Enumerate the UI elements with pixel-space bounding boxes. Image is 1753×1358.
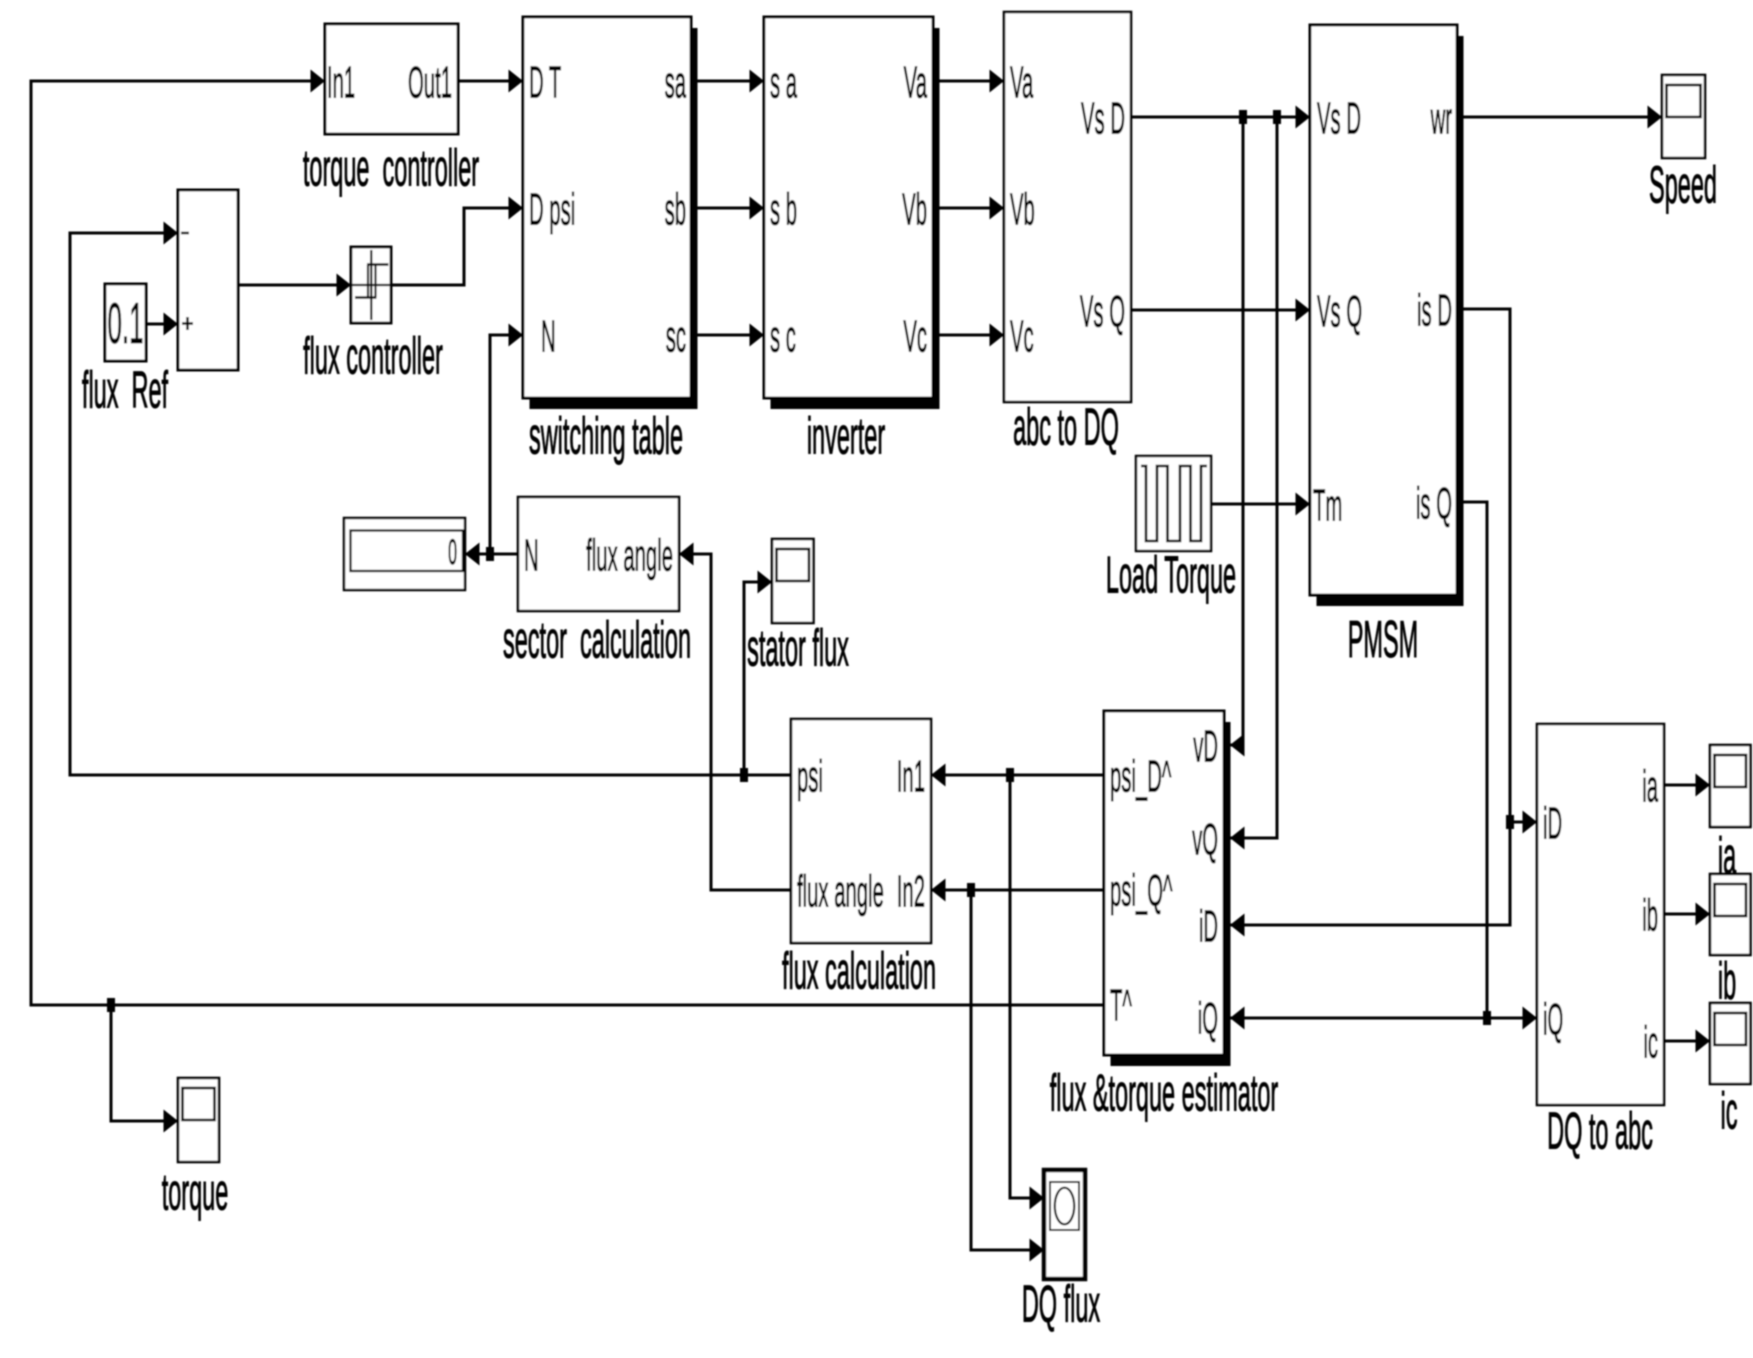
wire: inverter Vb to abc-to-DQ Vb — [934, 207, 1004, 210]
svg-text:flux calculation: flux calculation — [782, 942, 936, 1000]
svg-text:T^: T^ — [1110, 982, 1132, 1031]
svg-text:Va: Va — [1010, 59, 1034, 108]
wire: PMSM wr to Speed scope — [1463, 116, 1662, 119]
svg-text:psi: psi — [797, 753, 823, 802]
XY graph DQ flux — [1044, 1170, 1085, 1279]
constant 0.1 flux Ref — [105, 284, 146, 361]
svg-text:Vs D: Vs D — [1317, 95, 1361, 144]
relay flux controller — [351, 247, 391, 323]
wire: flux Ref 0.1 to sum plus input — [146, 323, 178, 326]
subsystem: switching table (with shadow) — [530, 28, 698, 409]
svg-text:wr: wr — [1430, 95, 1452, 144]
wire: Vs D tap down to estimator vQ — [1230, 117, 1277, 838]
svg-text:vQ: vQ — [1192, 816, 1218, 865]
wire: switching table sa to inverter s a — [692, 80, 764, 83]
wire: sector calculation N output to display — [465, 553, 518, 556]
svg-text:sa: sa — [665, 59, 687, 108]
svg-text:abc to DQ: abc to DQ — [1013, 398, 1119, 456]
svg-text:flux Ref: flux Ref — [82, 361, 169, 419]
wire: flux controller to switching table D psi — [391, 208, 523, 285]
wire: DQ-to-abc ia to ia scope — [1664, 784, 1710, 787]
subsystem: flux &torque estimator (with shadow) — [1111, 722, 1231, 1066]
wire: N tap up to switching table N input — [490, 335, 523, 554]
svg-text:psi_D^: psi_D^ — [1110, 753, 1172, 802]
ellipse in DQ flux icon — [1055, 1188, 1074, 1225]
svg-text:sector calculation: sector calculation — [503, 611, 691, 669]
wire: inverter Va to abc-to-DQ Va — [934, 80, 1004, 83]
svg-text:DQ to abc: DQ to abc — [1547, 1102, 1653, 1160]
svg-text:ib: ib — [1642, 892, 1658, 941]
svg-text:D psi: D psi — [529, 186, 575, 235]
svg-text:ic: ic — [1643, 1019, 1658, 1068]
svg-text:iQ: iQ — [1543, 996, 1563, 1045]
svg-text:Vb: Vb — [1010, 186, 1035, 235]
svg-text:N: N — [541, 313, 556, 362]
scope torque — [178, 1078, 219, 1162]
wire: estimator psi_Q^ to flux calculation In2 — [931, 889, 1104, 892]
junction dot psi_Q^ / DQ flux tap — [967, 883, 975, 897]
wire: DQ-to-abc ib to ib scope — [1664, 913, 1710, 916]
svg-text:iQ: iQ — [1198, 995, 1218, 1044]
wire: psi_Q^ tap down to DQ flux input 2 — [971, 890, 1044, 1250]
svg-text:Tm: Tm — [1313, 482, 1342, 531]
svg-text:Vs Q: Vs Q — [1080, 288, 1125, 337]
wire: T^ estimator feedback to torque controller In1 — [31, 81, 1104, 1005]
subsystem: DQ to abc — [1537, 724, 1664, 1105]
svg-text:Speed: Speed — [1649, 156, 1717, 214]
subsystem: sector calculation — [518, 497, 679, 611]
wire: PMSM is D down to estimator iD — [1230, 309, 1510, 925]
wire: switching table sb to inverter s b — [692, 207, 764, 210]
junction dot Vs D tap 1 — [1239, 110, 1247, 124]
svg-text:flux controller: flux controller — [303, 327, 443, 385]
svg-text:vD: vD — [1193, 723, 1218, 772]
sum block — [178, 190, 238, 370]
wire: psi_D^ tap down to DQ flux input 1 — [1010, 775, 1044, 1198]
subsystem: flux calculation — [791, 719, 931, 943]
svg-text:ic: ic — [1721, 1082, 1738, 1140]
subsystem: torque controller — [325, 24, 458, 134]
svg-text:torque controller: torque controller — [303, 139, 479, 197]
svg-text:s c: s c — [770, 313, 796, 362]
svg-text:flux angle: flux angle — [797, 868, 884, 917]
svg-text:is D: is D — [1417, 287, 1452, 336]
svg-text:In1: In1 — [327, 59, 355, 108]
svg-text:torque: torque — [162, 1163, 229, 1221]
wire: psi tap up to stator flux scope — [744, 582, 772, 775]
svg-text:iD: iD — [1543, 800, 1562, 849]
wire: sum output to flux controller relay — [238, 284, 351, 287]
svg-text:Vb: Vb — [902, 186, 927, 235]
scope stator flux — [772, 539, 814, 623]
wire: psi output of flux calculation to sum minus input — [70, 233, 791, 775]
subsystem: inverter (with shadow) — [771, 28, 940, 409]
svg-text:Vs D: Vs D — [1081, 95, 1125, 144]
junction dot is Q net — [1483, 1011, 1491, 1025]
svg-text:ib: ib — [1718, 952, 1736, 1010]
wire: torque controller Out1 to switching table D T — [458, 80, 523, 83]
pulse waveform icon — [1141, 466, 1207, 541]
junction dot psi_D^ / DQ flux tap — [1006, 768, 1014, 782]
svg-text:In1: In1 — [897, 753, 925, 802]
wire: T^ tap down to torque scope — [111, 1005, 178, 1121]
svg-text:flux &torque estimator: flux &torque estimator — [1050, 1064, 1278, 1122]
wire: iQ net to estimator iQ — [1230, 1017, 1487, 1020]
svg-text:sb: sb — [665, 186, 686, 235]
subsystem: PMSM (with shadow) — [1317, 36, 1464, 606]
junction dot Vs D tap 2 — [1273, 110, 1281, 124]
svg-text:inverter: inverter — [807, 407, 885, 465]
wire: Load Torque to PMSM Tm — [1211, 503, 1310, 506]
wire: flux calculation flux angle output to sector calculation — [679, 554, 791, 890]
svg-text:sc: sc — [666, 313, 686, 362]
svg-text:Out1: Out1 — [408, 59, 452, 108]
scope ib — [1710, 874, 1751, 955]
svg-text:psi_Q^: psi_Q^ — [1110, 867, 1173, 916]
junction dot psi / stator flux tap — [740, 768, 748, 782]
svg-text:Vs Q: Vs Q — [1317, 288, 1362, 337]
svg-text:iD: iD — [1199, 903, 1218, 952]
svg-text:In2: In2 — [897, 868, 925, 917]
wire: inverter Vc to abc-to-DQ Vc — [934, 334, 1004, 337]
wire: abc-to-DQ Vs D to PMSM Vs D — [1131, 116, 1310, 119]
svg-text:0.1: 0.1 — [107, 293, 143, 356]
display block (flipped) — [344, 518, 465, 590]
wire: DQ-to-abc ic to ic scope — [1664, 1040, 1710, 1043]
svg-text:Vc: Vc — [903, 313, 927, 362]
svg-text:D T: D T — [529, 59, 561, 108]
svg-text:N: N — [524, 532, 539, 581]
wire: PMSM is Q down to iQ net — [1463, 502, 1487, 1018]
scope ic — [1710, 1003, 1751, 1084]
svg-text:PMSM: PMSM — [1348, 611, 1418, 669]
svg-text:ia: ia — [1642, 763, 1658, 812]
svg-text:s a: s a — [770, 59, 797, 108]
pulse generator Load Torque — [1136, 456, 1211, 551]
scope ia — [1710, 745, 1751, 827]
wire: switching table sc to inverter s c — [692, 334, 764, 337]
svg-text:Vc: Vc — [1010, 313, 1034, 362]
subsystem: abc to DQ — [1004, 12, 1131, 402]
svg-text:s b: s b — [770, 186, 797, 235]
svg-text:0: 0 — [448, 532, 457, 572]
svg-text:is Q: is Q — [1416, 480, 1452, 529]
wire: iQ net to DQ-to-abc iQ — [1487, 1017, 1537, 1020]
wire: abc-to-DQ Vs Q to PMSM Vs Q — [1131, 309, 1310, 312]
svg-text:Load Torque: Load Torque — [1106, 546, 1236, 604]
svg-text:stator flux: stator flux — [747, 619, 849, 677]
wire: estimator psi_D^ to flux calculation In1 — [931, 774, 1104, 777]
svg-text:Va: Va — [904, 59, 928, 108]
wire: Vs D tap down to estimator vD — [1230, 117, 1243, 745]
svg-text:DQ flux: DQ flux — [1022, 1275, 1100, 1333]
junction dot is D / DQ-to-abc iD tap — [1506, 815, 1514, 829]
junction dot N output — [486, 547, 494, 561]
scope Speed — [1662, 75, 1705, 158]
svg-text:switching table: switching table — [529, 407, 683, 465]
svg-text:flux angle: flux angle — [586, 532, 673, 581]
junction dot T^ / torque scope tap — [107, 998, 115, 1012]
wire: is D tap to DQ-to-abc iD — [1510, 821, 1537, 824]
